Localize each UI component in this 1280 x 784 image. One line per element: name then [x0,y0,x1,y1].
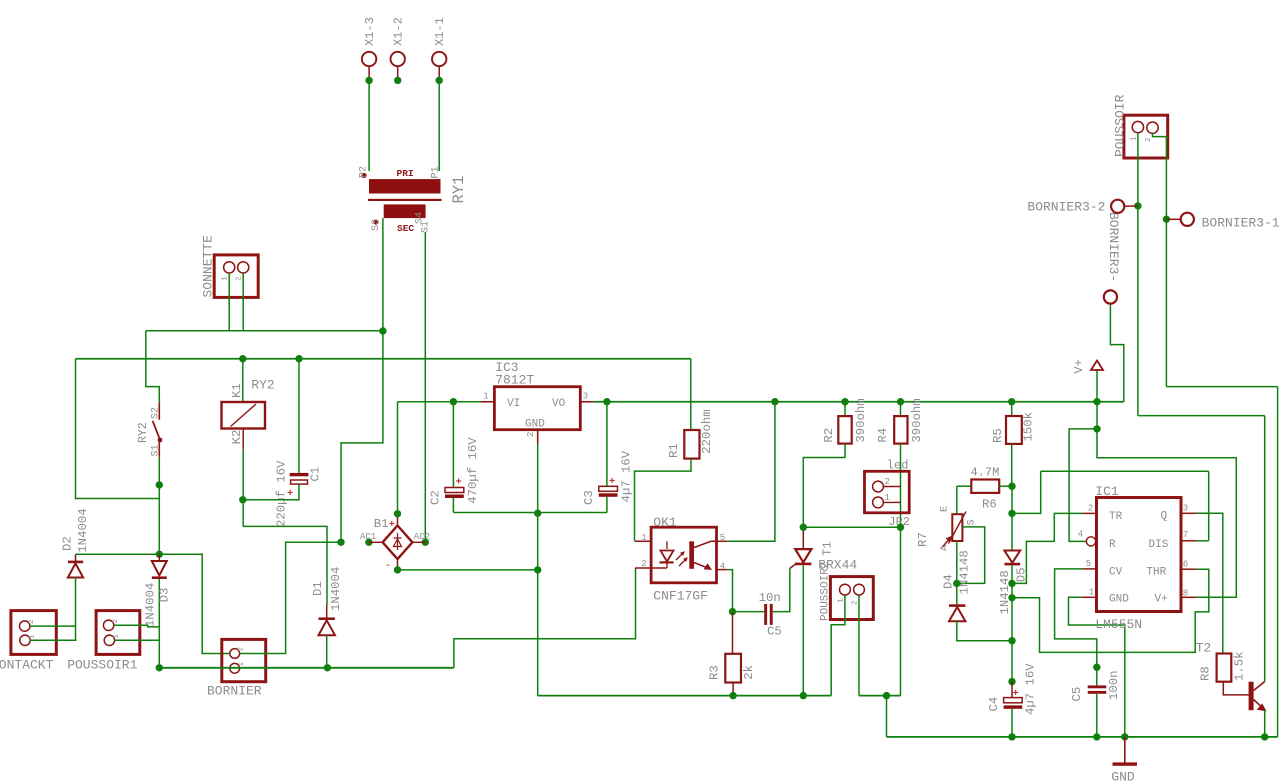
svg-text:P2: P2 [359,166,370,178]
svg-text:BORNIER3-1: BORNIER3-1 [1202,216,1280,231]
junction bottom-left bus [156,664,163,671]
junction at X1-2 [394,77,401,84]
wire pin2 node to right rail [1166,386,1277,388]
BORNIER pin 1 circle [230,663,240,673]
wire AC bus corner down to R1 [690,359,692,430]
junction R3 / ground bus [729,692,736,699]
svg-text:C1: C1 [309,467,323,482]
wire bus up to OK1 pin2 [454,568,636,668]
OK1 lead pin4 [717,569,728,571]
switch RY2 arm [153,421,161,442]
wire SCR node link [803,526,900,528]
svg-text:+: + [456,477,462,489]
svg-text:THR: THR [1146,567,1166,579]
wire R6 left [957,485,972,487]
wire C5b bottom [1096,694,1098,737]
wire GND pin1 net [1069,597,1125,737]
wire D1 top stub [326,605,328,619]
capacitor C2 plate bottom [445,495,464,499]
wire OK1 pin5 up to 12V bus [728,402,775,542]
wire POUSSOIR1 pin2 to D3 [114,625,160,627]
svg-text:R3: R3 [708,665,722,680]
svg-text:S2: S2 [151,407,162,419]
transistor T2 emitter [1254,700,1265,710]
svg-text:+: + [609,476,615,488]
junction SEC-left / bus [379,327,386,334]
pin stub X1-3 [368,66,370,80]
wire SONNETTE pin2 down [242,273,244,331]
junction GND vertical / B1 minus [534,566,541,573]
wire VI net [398,401,482,403]
wire IC3 GND down [537,444,539,696]
wire R4 top [900,402,902,416]
junction pin4 / C5 / R3 [729,608,736,615]
wire K2 down [242,429,244,450]
BORNIER3-1 stub [1166,218,1180,220]
trimmer R7 arrowhead [947,537,952,542]
resistor R6 box [971,480,999,493]
svg-text:R1: R1 [667,443,681,458]
JP2 pin1 stub [883,501,900,503]
IC3 lead VO [580,401,593,403]
wire pin1 node to collector rail [1138,415,1265,417]
svg-text:GND: GND [1109,594,1129,606]
capacitor C5b plate bottom [1088,691,1107,694]
svg-text:P1: P1 [431,166,442,178]
diode D3 cathode bar [152,576,167,579]
wire C2 top [452,402,454,488]
wire K1 top to bus [242,359,244,402]
wire bottom ground bus [887,736,1278,738]
svg-text:KONTACKT: KONTACKT [0,658,54,673]
svg-text:1N4148: 1N4148 [958,550,972,594]
relay coil K1 diagonal [231,404,257,427]
svg-text:150k: 150k [1022,412,1036,442]
svg-text:2k: 2k [742,665,756,680]
OK1 emitter arrowhead [705,564,712,569]
svg-text:S: S [967,519,978,525]
wire K2 to C1 node [242,449,244,526]
diode D1 triangle [319,620,335,635]
wire R5R6 node down [1011,486,1013,513]
wire C3 top [606,402,608,487]
wire V+ node down [1096,402,1098,429]
IC3 lead GND [537,430,539,444]
wire C1 top to bus [298,359,300,473]
svg-text:D1: D1 [311,581,325,596]
svg-text:3: 3 [1183,504,1188,514]
wire C2 bottom [452,498,454,513]
wire POUSSOIR pin1 down [1137,133,1139,206]
svg-text:R5: R5 [991,428,1005,443]
wire D5 node down [1011,583,1013,640]
wire trigger node to TR corner [1012,471,1041,513]
wire SCR cathode down [802,565,804,695]
diode D2 cathode bar [68,561,83,564]
junction ground bus drop [883,692,890,699]
resistor R5 box [1006,416,1022,444]
svg-text:2: 2 [526,432,536,437]
optocoupler OK1 box [651,527,716,583]
svg-text:1: 1 [29,634,37,639]
svg-text:LM555N: LM555N [1095,617,1142,632]
POUSSOIR2 pin 2 circle [854,584,865,595]
pin stub X1-1 [438,66,440,80]
wire KONTACKT pin1 [30,639,76,641]
svg-text:POUSSOIR: POUSSOIR [1113,94,1128,157]
bridge B1 inner cathode [394,537,402,539]
wire ground bus right [859,695,901,697]
wire DIS lead link [1196,540,1208,542]
voltage regulator IC3 box [494,387,580,430]
svg-text:100n: 100n [1107,670,1121,700]
svg-text:R4: R4 [876,428,890,443]
diode D2 triangle [68,563,83,577]
wire R6 right [999,485,1012,487]
svg-text:SEC: SEC [397,223,414,234]
wire X1-1 to RY1 P1 [438,80,440,171]
wire POUSSOIR1 pin1 [115,639,160,641]
wire bus corner to switch S2 [146,331,160,403]
diode D4 cathode bar [949,604,965,607]
wire main AC bus [76,358,691,360]
svg-text:K2: K2 [230,430,244,445]
OK1 LED lead bottom [666,564,668,569]
wire D3 bottom [158,579,160,668]
wire B1 plus up to VI net [397,402,399,514]
junction K1 bus [239,355,246,362]
capacitor C1 plate bottom [291,480,308,484]
svg-text:3: 3 [583,392,588,402]
junction trimmer/D4 [953,580,960,587]
IC1 lead THR [1181,568,1196,570]
BORNIER3-2 stub [1124,205,1138,207]
junction R5/R6 [1008,483,1015,490]
IC1 lead TR [1083,512,1097,514]
transformer RY1 polarity mark S [373,219,378,224]
svg-text:IC1: IC1 [1095,484,1119,499]
wire POUSSOIR2 pin1 down [831,595,845,696]
svg-text:POUSSOIR2: POUSSOIR2 [820,562,832,621]
wire to R3 [732,612,734,654]
wire bottom bus BORNIER pin1 [159,667,454,669]
OK1 internal LED triangle [661,551,674,562]
svg-text:4: 4 [720,562,725,572]
junction B1 plus [394,510,401,517]
bridge B1 inner diode [394,539,402,547]
wire X1-3 to RY1 P2 [368,80,370,171]
trimmer R7 body [952,514,962,541]
OK1 lead pin5 [717,540,728,542]
switch RY2 pin stub S1 [158,442,160,457]
svg-text:220ohm: 220ohm [700,409,714,453]
POUSSOIR pin 1 circle [1132,121,1143,132]
svg-text:2: 2 [28,619,36,624]
wire trimmer wiper S [957,527,985,584]
svg-text:S1: S1 [421,221,432,233]
thyristor T1 triangle [795,549,811,562]
svg-text:R: R [1109,539,1116,551]
connector pin BORNIER3-3 circle [1104,290,1117,303]
junction VO / C3 [603,398,610,405]
wire OK1 pin4 down [728,570,733,612]
svg-text:5: 5 [1086,559,1091,569]
svg-text:R8: R8 [1199,666,1213,681]
junction trigger node [1008,510,1015,517]
svg-text:AC2: AC2 [414,532,430,542]
svg-text:AC1: AC1 [360,532,376,542]
svg-text:1: 1 [1089,588,1094,598]
resistor R1 box [684,430,699,459]
wire THR tap [1012,569,1209,652]
wire reset branch [1069,429,1097,542]
IC1 lead CV [1083,568,1097,570]
ground symbol stub [1124,737,1126,763]
wire trimmer bottom [956,541,958,583]
svg-text:2: 2 [1145,137,1153,142]
wire D2 bottom [75,578,77,640]
junction BORNIER3-2 node [1134,202,1141,209]
svg-text:R6: R6 [982,498,997,512]
diode D4 triangle [949,607,965,621]
connector KONTACKT box [11,611,56,655]
junction D2/D3 node [156,551,163,558]
capacitor C4 plate top [1004,698,1023,703]
junction K2/C1 [239,496,246,503]
transformer RY1 secondary winding [384,204,426,218]
transistor T2 emitter arrowhead [1258,704,1266,710]
wire C1 bottom [243,484,299,500]
wire D5 bottom [1011,565,1013,583]
diode D3 triangle [152,561,167,575]
svg-text:10n: 10n [759,591,781,605]
junction SCR anode node [800,524,807,531]
timer IC1 box [1097,498,1182,612]
svg-text:T1: T1 [821,541,835,556]
capacitor C3 plate bottom [599,493,618,497]
connector pin BORNIER3-1 circle [1181,213,1194,226]
IC1 lead DIS [1181,540,1196,542]
junction AC1 [365,539,372,546]
trimmer R7 diagonal [949,512,967,544]
connector POUSSOIR box [1124,115,1168,158]
junction at X1-1 [436,77,443,84]
transistor T2 base bar [1249,682,1254,711]
svg-text:6: 6 [1183,560,1188,570]
wire R3 bottom [732,683,734,696]
junction C2 top [450,398,457,405]
wire V+ to pin8 rail [1097,429,1236,597]
capacitor C2 plate top [445,488,464,493]
OK1 light arrow 2 [679,558,687,566]
BORNIER pin 2 circle [230,649,240,659]
bridge B1 lead plus [397,514,399,526]
wire R4 bottom through JP2 [900,444,902,528]
svg-text:4.7M: 4.7M [971,466,1000,480]
wire C2-C3 ground link [453,512,607,514]
wire POUSSOIR pin2 [1153,133,1167,219]
wire D3 top stub [158,554,160,561]
junction AC2 [422,539,429,546]
svg-text:1: 1 [238,662,246,667]
junction SCR / ground bus [800,692,807,699]
wire C4 top stub [1011,682,1013,698]
wire T2 emitter down [1264,710,1266,737]
junction R2 bus [841,398,848,405]
svg-text:X1-1: X1-1 [433,17,447,46]
thyristor T1 gate [790,565,795,569]
svg-text:470µf 16V: 470µf 16V [466,437,480,504]
svg-text:7: 7 [1183,530,1188,540]
wire D1 bottom [326,635,328,668]
wire R8 bottom to base [1223,682,1249,695]
svg-text:GND: GND [525,419,545,431]
svg-text:5: 5 [720,533,725,543]
POUSSOIR2 pin 1 circle [840,584,851,595]
capacitor C5 plate right [770,604,773,625]
IC1 lead V+ [1181,596,1196,598]
bridge rectifier B1 diamond [383,526,413,560]
svg-text:-: - [385,561,391,572]
svg-text:BORNIER3-: BORNIER3- [1106,212,1121,282]
jumper JP2 box [865,471,910,513]
wire B1 minus to GND net [398,569,538,571]
switch RY2 contact dot [158,438,163,443]
wire C5 left [733,611,765,613]
junction D4 node [1008,637,1015,644]
svg-text:S3: S3 [371,219,382,231]
OK1 lead pin1 [635,540,651,542]
junction at X1-3 [365,77,372,84]
svg-text:VI: VI [507,398,520,410]
junction C5b / bottom bus [1093,733,1100,740]
svg-text:1N4148: 1N4148 [998,570,1012,614]
wire D4 node to C4 [1011,641,1013,682]
junction R4 bus [897,398,904,405]
wire D4 bottom [957,621,1012,640]
svg-text:2: 2 [641,559,646,569]
wire V+ symbol stub [1096,370,1098,402]
wire T2 collector up [1264,416,1266,682]
ground symbol bar [1113,762,1138,765]
svg-text:390ohm: 390ohm [854,398,868,442]
svg-text:S1: S1 [151,444,162,456]
capacitor C4 plate bottom [1004,705,1023,708]
wire RY1 S-left down [382,218,384,331]
wire RY1 S-right down to AC2 [424,232,426,542]
junction C4 top [1008,678,1015,685]
thyristor T1 cathode bar [795,563,812,566]
svg-text:1N4004: 1N4004 [144,583,158,627]
svg-text:GND: GND [1111,770,1135,784]
OK1 light arrowhead 2 [684,558,687,561]
POUSSOIR1 pin 2 circle [103,620,113,630]
svg-text:A: A [940,545,951,551]
junction B1 minus [394,566,401,573]
switch RY2 pin stub S2 [158,402,160,420]
relay coil K1 box [222,402,266,429]
capacitor C1 plate top [290,473,309,476]
svg-text:C3: C3 [582,490,596,505]
svg-text:POUSSOIR1: POUSSOIR1 [67,658,137,673]
bridge B1 inner lead [397,533,399,550]
svg-text:D3: D3 [158,588,172,603]
resistor R4 box [894,416,907,444]
transistor T2 collector [1254,682,1265,691]
wire BORNIER pin2 right to AC1 net [240,542,341,653]
wire K2 node to D1 [243,526,327,605]
junction THR tap [1008,594,1015,601]
JP2 pin2 stub [883,486,900,488]
svg-text:2: 2 [885,477,890,487]
junction GND bus [1121,733,1128,740]
svg-text:220µf 16V: 220µf 16V [275,460,289,527]
svg-text:1.5k: 1.5k [1233,651,1247,681]
connector pin BORNIER3-2 circle [1111,200,1124,213]
svg-text:X1-2: X1-2 [392,17,406,46]
svg-text:B1: B1 [374,517,389,531]
svg-text:RY2: RY2 [137,422,150,443]
connector BORNIER box [222,639,266,681]
wire R2 bottom to SCR node [803,444,845,528]
svg-text:SONNETTE: SONNETTE [201,235,216,298]
connector POUSSOIR1 box [96,611,140,655]
KONTACKT pin 1 circle [20,635,30,645]
diode D5 triangle [1004,551,1020,563]
diode D1 cathode bar [319,617,335,620]
svg-text:C4: C4 [987,697,1001,712]
wire ground bus drop to bottom bus [886,696,888,737]
junction AC1 outer [337,539,344,546]
capacitor C5b plate top [1088,685,1107,688]
wire bottom bus up right side [1277,387,1279,737]
wire CV net [1055,569,1097,667]
junction D1 / bus [324,664,331,671]
svg-text:390ohm: 390ohm [910,398,924,442]
wire D2 net to BORNIER pin2 [159,554,229,653]
svg-text:4µ7 16V: 4µ7 16V [620,450,634,502]
svg-text:Q: Q [1161,511,1168,523]
IC1 reset bubble [1086,537,1095,546]
svg-text:4µ7 16V: 4µ7 16V [1024,663,1038,715]
IC3 lead VI [481,401,494,403]
svg-text:1: 1 [222,276,230,281]
wire pin2 node down [1165,219,1167,386]
svg-text:RY1: RY1 [450,176,468,204]
wire AC1 node up [341,332,383,543]
SONNETTE pin 1 circle [224,262,235,273]
capacitor C3 plate top [599,486,618,491]
svg-text:X1-3: X1-3 [363,17,377,46]
svg-text:7812T: 7812T [495,373,534,388]
POUSSOIR1 pin 1 circle [104,635,114,645]
OK1 LED lead top [666,541,668,549]
junction C4 / bottom bus [1008,733,1015,740]
connector POUSSOIR2 box [830,577,873,620]
svg-text:PRI: PRI [397,168,414,179]
wire 12V bus [594,401,1124,403]
connector pin X1-2 circle [391,52,405,66]
OK1 emitter [694,563,711,570]
wire C5 right to SCR gate [773,569,790,612]
OK1 light arrow 1 [676,552,684,560]
svg-text:+: + [1013,688,1019,700]
bridge B1 lead minus [397,559,399,570]
bridge B1 lead AC1 [369,541,383,543]
wire 12V bus corner to BORNIER3-3 [1110,304,1123,402]
svg-text:D4: D4 [942,574,956,589]
IC1 lead Q [1181,512,1196,514]
